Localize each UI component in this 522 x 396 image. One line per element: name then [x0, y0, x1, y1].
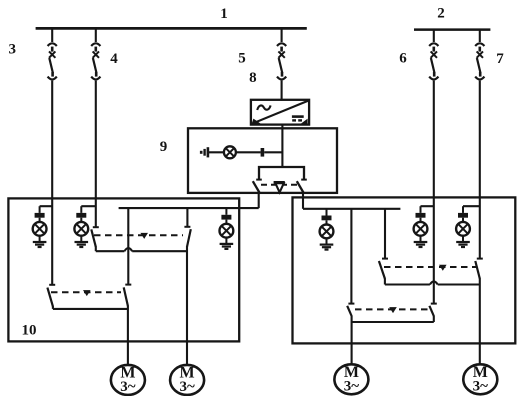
wire: feeder 7 drop from bus 2 — [479, 29, 481, 42]
switch blade feeder 3 — [47, 288, 53, 307]
breaker 6 (withdrawable) — [429, 43, 438, 79]
svg-text:5: 5 — [238, 50, 246, 66]
switch blade reserve row 2 — [124, 287, 128, 306]
wire: feeder 3 drop from bus 1 — [51, 27, 53, 42]
wire: blade to output row 2 — [52, 306, 54, 309]
bus 1 — [36, 27, 307, 30]
wire: feeder 5 drop from bus 1 — [281, 27, 283, 42]
wire: feeder 6 down to changeover contact — [433, 81, 435, 304]
switch blade right (transfer) — [297, 181, 304, 193]
contact tick feeder 4 switch — [93, 226, 99, 228]
interlock triangle row 2 left — [83, 290, 91, 296]
motor M1 — [111, 365, 145, 395]
breaker 5 (withdrawable) — [277, 43, 286, 79]
wire: reserve drop to motor2 changeover — [186, 208, 188, 227]
interlock dashed link right row 2 — [355, 308, 428, 310]
motor M4 — [463, 364, 497, 394]
fuse F (box 9) — [261, 148, 265, 157]
wire: lamp tap from feeder 6 — [421, 205, 434, 207]
bus 2 — [414, 28, 490, 31]
svg-text:3: 3 — [8, 41, 16, 57]
wire: feeder 4 drop from bus 1 — [95, 27, 97, 42]
svg-text:2: 2 — [437, 6, 445, 22]
motor M2 — [170, 365, 204, 395]
wire: reserve line A to box 10 — [119, 207, 259, 209]
wire: blade to output row 1 — [95, 246, 97, 251]
svg-text:10: 10 — [22, 323, 37, 339]
svg-text:8: 8 — [249, 70, 257, 86]
lamp-fuse-earth L1 — [33, 206, 47, 247]
motor M3 — [334, 364, 368, 394]
wire: reserve drop to motor1 changeover — [127, 208, 129, 285]
wire: feeder 5 to converter — [281, 81, 283, 101]
switch blade feeder 4 — [91, 229, 96, 246]
interlock dashed link (transfer) — [261, 184, 298, 186]
contact tick feeder 7 switch — [477, 258, 483, 260]
wire: transfer left output down — [258, 193, 260, 208]
lamp-fuse-earth L2 — [74, 206, 88, 247]
wire: feeder 3 down to box 10 — [51, 81, 53, 285]
right cabinet box — [293, 197, 516, 343]
wire: converter output down to transfer switch — [281, 125, 283, 167]
interlock dashed link row 2 left — [51, 291, 121, 293]
switch blade feeder 7 — [475, 261, 480, 279]
switch blade reserve right row 1 — [379, 261, 385, 279]
contact tick reserve switch right row 2 — [348, 303, 354, 305]
interlock triangle right row 2 — [389, 307, 397, 313]
transfer switch bracket — [259, 167, 304, 180]
lamp-fuse-earth L4 on line A' — [320, 209, 334, 250]
contact tick reserve switch row 2 — [125, 284, 131, 286]
svg-text:9: 9 — [160, 139, 168, 155]
wire: row1 output with jump over motor1 feed — [96, 248, 187, 251]
interlock triangle row 1 left — [140, 233, 148, 239]
wire: right row2 output — [352, 321, 434, 323]
svg-text:7: 7 — [496, 51, 504, 67]
switch blade feeder 6 — [429, 306, 433, 316]
interlock dashed link right row 1 — [384, 266, 477, 268]
switch blade reserve right row 2 — [347, 306, 351, 316]
switch blade left (transfer) — [253, 181, 260, 193]
wire: feeder 7 down to changeover contact — [479, 81, 481, 259]
wire — [208, 151, 224, 153]
lamp HL (box 9) — [224, 146, 236, 158]
wire: motor 3 feed — [351, 316, 353, 365]
interlock triangle (transfer) — [274, 181, 285, 184]
wire: lamp tap from feeder 7 — [463, 205, 480, 207]
wire: lamp tap from feeder 3 — [40, 205, 53, 207]
lamp-fuse-earth L6 — [456, 206, 470, 247]
wire: motor 2 feed — [186, 246, 188, 365]
box 10 (switchgear cabinet left) — [8, 198, 239, 341]
interlock triangle right row 1 — [439, 265, 447, 271]
breaker 3 (withdrawable) — [48, 43, 57, 79]
wire: reserve drop A' to motor3 changeover — [350, 209, 352, 304]
wire: feeder 4 down to changeover contact — [95, 81, 97, 228]
svg-text:6: 6 — [399, 51, 407, 67]
contact tick reserve switch row 1 — [184, 226, 190, 228]
breaker 7 (withdrawable) — [475, 43, 484, 79]
contact tick feeder 6 switch — [431, 303, 437, 305]
wire: right row1 output with jump over feeder 6 — [385, 281, 480, 284]
contact tick feeder 3 switch — [49, 284, 55, 286]
chassis earth (rotated) in box 9 — [201, 147, 208, 157]
box 9 (control / supervision unit) — [188, 128, 337, 193]
converter U8 (AC/DC) — [251, 100, 309, 125]
lamp-fuse-earth L5 — [414, 206, 428, 247]
wire: feeder 6 drop from bus 2 — [433, 29, 435, 42]
contact tick right — [301, 179, 307, 181]
wire: row2 output — [53, 308, 128, 310]
contact tick reserve switch right row 1 — [382, 258, 388, 260]
wire: motor 1 feed — [127, 306, 129, 365]
lamp-fuse-earth L3 on line A — [220, 208, 234, 249]
wire: blade to output right row 1 — [384, 278, 386, 284]
interlock dashed link row 1 left — [94, 234, 183, 236]
switch blade reserve row 1 — [187, 229, 191, 247]
breaker 4 (withdrawable) — [91, 43, 100, 79]
wire — [264, 151, 282, 153]
wire: transfer right output down — [302, 193, 304, 209]
wire — [236, 151, 261, 153]
wire: lamp tap from feeder 4 — [81, 205, 96, 207]
contact tick left — [256, 179, 262, 181]
wire: motor 4 feed — [479, 278, 481, 365]
wire: reserve drop A' to motor4 changeover — [384, 209, 386, 259]
wire: feeder6 blade to output — [433, 316, 435, 322]
svg-text:4: 4 — [110, 51, 118, 67]
svg-text:1: 1 — [220, 6, 228, 22]
wire: reserve line A' to right box — [303, 208, 400, 210]
